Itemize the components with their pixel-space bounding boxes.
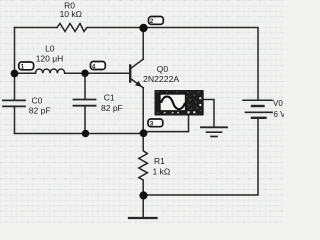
wire left rail lower [14,107,16,134]
wire bottom rail to battery [144,119,259,195]
node label 4 [91,62,106,71]
wire node 2 to top-right corner and down to battery [144,28,259,100]
wire C1 branch lower [84,106,86,134]
svg-text:120 μH: 120 μH [36,54,64,64]
svg-text:2N2222A: 2N2222A [143,74,179,84]
node label 2 [149,17,164,26]
capacitor C1 [74,100,96,106]
wire collector to node 2 [142,28,144,59]
svg-text:V0: V0 [273,99,283,108]
wire left rail upper [14,28,16,101]
svg-text:Q0: Q0 [157,64,169,74]
svg-text:82 pF: 82 pF [101,103,123,113]
inductor L0 [36,69,65,73]
junction node 2 [139,24,147,32]
transistor Q0 [130,59,143,88]
svg-text:4: 4 [92,63,96,70]
svg-text:10 kΩ: 10 kΩ [60,9,82,19]
battery V0 [243,100,272,118]
wire C1 branch upper [84,73,86,99]
wire L0 to node 4 [65,72,85,74]
svg-text:3: 3 [150,121,154,128]
oscilloscope [155,90,204,116]
node label 1 [19,62,34,70]
junction C1 bottom [82,130,89,137]
wire scope bottom lead [145,116,189,132]
wire top-left horizontal to R0 [15,27,58,29]
svg-text:6 V: 6 V [274,110,285,119]
resistor R0 [57,24,87,32]
wire bottom-left rail [15,133,144,135]
junction R1 bottom [139,191,147,199]
resistor R1 [139,133,148,195]
svg-text:L0: L0 [45,44,55,54]
svg-text:82 pF: 82 pF [29,106,51,116]
svg-text:R1: R1 [154,156,165,166]
wire node1 to L0 [15,72,36,74]
svg-text:1: 1 [21,63,25,70]
wire R1 bottom to ground [142,196,144,217]
junction node 1 [11,70,19,78]
svg-text:C1: C1 [104,92,115,102]
wire scope right lead [204,100,214,127]
ground at bottom [129,217,157,219]
ground at scope [201,127,227,136]
wire emitter down to node 3 [142,88,144,133]
node label 3 [148,119,163,128]
svg-text:2: 2 [150,18,154,25]
junction node 4 [81,70,88,77]
svg-text:1 kΩ: 1 kΩ [153,166,171,176]
wire R0 to node 2 [87,27,144,29]
capacitor C0 [3,100,25,106]
wire node4 to transistor base [85,72,130,74]
junction node 3 [140,129,148,137]
svg-text:C0: C0 [32,96,43,106]
